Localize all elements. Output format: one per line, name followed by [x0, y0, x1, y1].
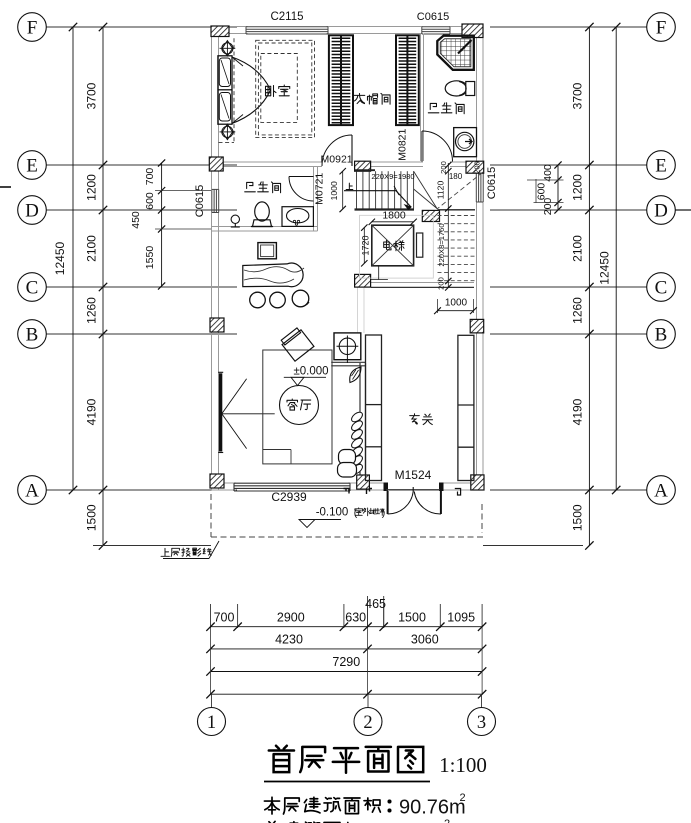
right grid axis lines: [490, 26, 647, 28]
svg-text:465: 465: [365, 597, 386, 611]
svg-text:): ): [382, 507, 386, 519]
sofa poufs: [339, 450, 356, 465]
bar stools: [250, 292, 266, 308]
rug outline: [263, 350, 332, 464]
entry hall label: [410, 414, 420, 424]
corridor light lines: [357, 287, 359, 333]
svg-text:C2115: C2115: [270, 11, 303, 23]
svg-text:1:100: 1:100: [439, 753, 487, 777]
top exterior wall: [212, 26, 248, 28]
shower arm: [458, 40, 472, 54]
light symbol 1: [220, 40, 236, 56]
shower enclosure: [437, 36, 474, 70]
wardrobe strip 1: [329, 35, 353, 125]
fan coil square: [334, 333, 361, 360]
column left B: [210, 318, 224, 332]
right segment dim line 3700/1200/2100/1260/4190/1500: [588, 27, 590, 546]
svg-text:1720: 1720: [361, 235, 371, 255]
stair winder diagonals: [414, 171, 437, 208]
svg-text:200: 200: [437, 277, 446, 290]
svg-text:400: 400: [542, 164, 554, 182]
elevator shaft light outline: [360, 215, 434, 278]
svg-text:4230: 4230: [275, 633, 303, 647]
bottom exterior wall: [212, 482, 237, 484]
svg-text:220X9=1980: 220X9=1980: [371, 172, 414, 181]
toilet bath2: [255, 202, 270, 221]
projection label 上层投影线: [161, 548, 169, 556]
door M0721 bath2: [289, 176, 314, 178]
right small dim extension lines: [527, 179, 564, 181]
projection dashed outline: [210, 494, 212, 537]
svg-text:M0821: M0821: [397, 128, 409, 160]
bottom dim row1 700/2900/630/465/1500/1095: [211, 626, 483, 628]
column right A: [471, 475, 484, 490]
svg-text:3700: 3700: [571, 82, 585, 109]
right total dim line 12450: [615, 27, 617, 490]
svg-text:B: B: [26, 325, 39, 346]
svg-text:C2939: C2939: [271, 490, 307, 504]
svg-text:700: 700: [214, 611, 235, 625]
svg-text:A: A: [654, 481, 668, 502]
svg-text:700: 700: [144, 168, 156, 186]
armchair rotated: [280, 327, 314, 361]
small door leaf right of entry: [455, 489, 461, 496]
svg-text:1500: 1500: [571, 504, 585, 531]
svg-text:1000: 1000: [445, 298, 468, 309]
svg-text:90.76m: 90.76m: [399, 797, 466, 819]
svg-text:C0615: C0615: [194, 185, 206, 217]
stair direction arrow: [344, 191, 411, 207]
svg-text:D: D: [25, 201, 39, 222]
column right B: [470, 319, 484, 333]
svg-text:450: 450: [130, 211, 142, 229]
bathroom top label: [428, 103, 439, 112]
blanket fold curves: [232, 57, 271, 90]
svg-text:2900: 2900: [277, 611, 305, 625]
svg-text:E: E: [26, 156, 38, 177]
svg-text:600: 600: [536, 183, 548, 201]
area text line2 (cut off): [265, 821, 280, 823]
right small dim line 400/600/200: [557, 165, 559, 210]
toilet top bath: [445, 81, 468, 96]
bottom dim row4: [211, 693, 483, 695]
entry divider wall: [359, 363, 361, 481]
svg-text:4190: 4190: [571, 398, 585, 425]
door M0821 bath top: [421, 131, 423, 162]
door M0921 bedroom: [322, 135, 352, 166]
stair flight2 treads dashed: [438, 215, 476, 217]
svg-text:1095: 1095: [447, 611, 475, 625]
left segment dim line 3700/1200/2100/1260/4190/1500: [102, 27, 104, 546]
mattress dashed: [261, 54, 298, 123]
wardrobe strip 2: [396, 35, 419, 125]
svg-text:D: D: [654, 201, 668, 222]
washing machine: [454, 128, 477, 157]
column mid E: [355, 161, 371, 171]
svg-text:E: E: [655, 156, 667, 177]
stair dashed diagonal: [437, 172, 483, 209]
pillows: [219, 58, 230, 87]
column right E: [466, 161, 484, 173]
svg-text:3700: 3700: [85, 82, 99, 109]
window C2939 jamb marks: [344, 489, 350, 494]
svg-text:M1524: M1524: [395, 468, 432, 482]
right bottom extension line: [483, 545, 583, 547]
wall stub above sofa: [331, 361, 365, 363]
floor drain: [231, 215, 239, 223]
svg-text:1800: 1800: [382, 209, 406, 221]
column below elevator: [355, 274, 371, 287]
light symbol 2: [220, 124, 236, 140]
svg-text:3: 3: [477, 713, 486, 733]
svg-text:M0921: M0921: [321, 154, 353, 166]
elevator counterweight: [417, 233, 423, 257]
bedroom closet dashed zone: [233, 38, 235, 142]
cloakroom label: [354, 93, 365, 103]
window C0615 top: [422, 26, 450, 28]
stair flight2 top tread: [438, 209, 476, 211]
left grid bubbles F E D C B A: [18, 13, 47, 42]
svg-text:M0721: M0721: [314, 173, 326, 205]
stair flight1 top-left dark edge: [355, 169, 376, 171]
svg-text:1260: 1260: [571, 297, 585, 324]
bathroom2 bottom wall: [212, 226, 318, 228]
svg-text:1200: 1200: [571, 174, 585, 201]
bottom grid bubbles 1 2 3: [211, 694, 213, 707]
area text line1: [264, 797, 279, 814]
svg-text:C: C: [26, 278, 39, 299]
stair flight1 bottom heavy edge: [355, 208, 415, 210]
wall below stairs C row: [371, 282, 474, 284]
svg-text:F: F: [656, 18, 667, 39]
column top-right: [462, 24, 483, 38]
stair flight2 dim line: [447, 163, 449, 287]
svg-text:1550: 1550: [144, 246, 156, 270]
bar counter: [243, 263, 303, 287]
window C0615 left wall: [211, 189, 213, 212]
entry cabinet right: [458, 335, 474, 480]
interior wall E row (bedroom side): [219, 161, 323, 163]
right exterior wall: [476, 27, 478, 170]
svg-text:3060: 3060: [411, 633, 439, 647]
door M1524 entry double: [384, 483, 388, 491]
left grid axis lines: [47, 26, 238, 28]
window C0615 right wall: [475, 169, 477, 202]
svg-text:1200: 1200: [85, 174, 99, 201]
elevator label: [384, 240, 391, 250]
svg-text:2100: 2100: [85, 235, 99, 262]
bottom long extension verticals: [210, 628, 212, 694]
svg-text:2100: 2100: [571, 235, 585, 262]
svg-text:±0.000: ±0.000: [293, 366, 328, 378]
svg-text:1500: 1500: [398, 611, 426, 625]
elevator car: [372, 225, 414, 266]
column left E: [209, 157, 223, 171]
svg-text:600: 600: [144, 192, 156, 210]
left total dim line 12450: [72, 27, 74, 490]
elevator dim tail: [378, 266, 380, 280]
svg-text:F: F: [27, 18, 38, 39]
bedroom label: [266, 86, 277, 97]
svg-text:180: 180: [449, 172, 463, 181]
svg-text:2: 2: [460, 792, 466, 804]
elevator dim 1720: [363, 228, 365, 264]
dim 1000 below stairs: [437, 299, 439, 313]
entry cabinet left: [366, 335, 382, 481]
column stair mid: [422, 210, 439, 221]
right D-row stub: [675, 209, 691, 211]
stair flight1 treads: [356, 171, 358, 208]
plant leaf: [350, 367, 361, 383]
svg-text:4190: 4190: [85, 398, 99, 425]
wash basin: [282, 207, 313, 227]
svg-text:C0615: C0615: [417, 11, 449, 23]
bottom dim row2 4230/3060: [211, 648, 483, 650]
bottom dim row3 7290: [211, 671, 483, 673]
svg-text:220X8=1760: 220X8=1760: [437, 223, 446, 266]
svg-text:B: B: [655, 325, 668, 346]
svg-text:200: 200: [473, 161, 482, 174]
svg-text:630: 630: [345, 611, 366, 625]
svg-text:12450: 12450: [53, 241, 67, 275]
living room label circle: [280, 386, 319, 425]
left small dim line 700/600/450/1550: [161, 163, 163, 286]
svg-text:-0.100: -0.100: [316, 507, 349, 519]
svg-text:1500: 1500: [85, 504, 99, 531]
left bottom extension line: [93, 545, 211, 547]
elevator dim 1800: [372, 221, 414, 223]
window C2115 top: [246, 26, 328, 28]
svg-text:1: 1: [207, 713, 216, 733]
bottom dim extension lines: [210, 604, 212, 628]
stair dim 1000 flight1: [342, 171, 344, 209]
title underline: [264, 781, 430, 783]
svg-text:2: 2: [444, 818, 450, 823]
stair label up: [346, 183, 353, 189]
tv projection lines: [222, 379, 247, 414]
sofa braid: [350, 410, 364, 423]
svg-text:7290: 7290: [332, 655, 360, 669]
bed outer dashed rect: [256, 40, 315, 137]
svg-text:12450: 12450: [598, 251, 612, 285]
svg-text:2: 2: [363, 713, 372, 733]
bed headboard: [218, 56, 232, 124]
side table: [258, 243, 277, 259]
right grid bubbles F E D C B A: [647, 13, 676, 42]
left exterior wall: [211, 27, 213, 190]
title 首层平面图: [269, 746, 294, 772]
bathroom2 label: [245, 182, 256, 191]
svg-text:200: 200: [542, 198, 554, 216]
interior wall E row (stairs to right wall): [371, 161, 423, 163]
svg-text:1000: 1000: [329, 181, 339, 200]
column top-left: [211, 26, 229, 37]
left small dim extension lines: [155, 190, 211, 192]
column left A: [210, 474, 224, 488]
svg-text:1120: 1120: [436, 181, 446, 200]
svg-text:C: C: [655, 278, 668, 299]
svg-text:A: A: [25, 481, 39, 502]
column mid A: [357, 475, 370, 489]
window C2939 bottom: [234, 482, 350, 484]
interior wall cloakroom/bathroom: [420, 34, 422, 162]
svg-text:1260: 1260: [85, 297, 99, 324]
bathroom2 right wall: [313, 167, 315, 232]
left break mark: [0, 186, 11, 188]
svg-text:C0615: C0615: [486, 167, 498, 199]
tv on wall: [219, 374, 222, 451]
